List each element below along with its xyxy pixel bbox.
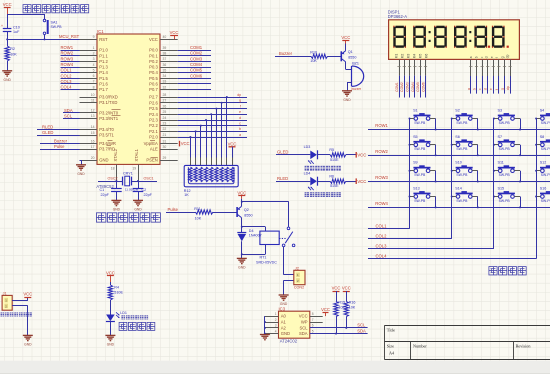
svg-text:SW-PB: SW-PB [414,173,426,177]
svg-text:SCL: SCL [357,323,366,328]
svg-text:COM3: COM3 [406,82,410,92]
svg-text:33: 33 [163,80,167,84]
svg-text:11.0592M: 11.0592M [125,188,139,192]
svg-text:Buzzer: Buzzer [54,139,68,144]
svg-text:7: 7 [93,80,95,84]
svg-text:XTAL1: XTAL1 [134,148,139,161]
svg-text:P3.3/INT1: P3.3/INT1 [99,116,119,121]
svg-text:SW-PB: SW-PB [456,173,468,177]
svg-text:d: d [485,56,489,58]
svg-text:CON2: CON2 [294,286,304,290]
svg-text:COL3: COL3 [61,79,73,84]
svg-text:P2.5: P2.5 [149,106,158,111]
svg-text:S10: S10 [455,161,462,165]
svg-text:GND: GND [281,331,290,336]
svg-text:S15: S15 [498,187,505,191]
svg-text:a: a [469,56,473,58]
svg-text:M6: M6 [425,54,429,59]
svg-text:17: 17 [91,145,95,149]
svg-text:Title: Title [387,328,395,333]
svg-text:GLED: GLED [42,130,53,135]
svg-text:13: 13 [91,114,95,118]
svg-text:GND: GND [343,98,351,102]
svg-text:3: 3 [275,324,277,328]
svg-text:2: 2 [275,318,277,322]
svg-text:SW-PB: SW-PB [414,121,426,125]
svg-text:f: f [495,57,499,58]
svg-text:P0.5: P0.5 [149,76,158,81]
svg-text:S14: S14 [455,187,462,191]
svg-text:GND: GND [238,265,246,269]
svg-text:SA1: SA1 [51,21,58,25]
svg-text:COM6: COM6 [190,73,203,78]
svg-text:M2: M2 [401,54,405,59]
svg-text:SDA: SDA [357,328,366,333]
svg-text:M5: M5 [419,54,423,59]
svg-text:S11: S11 [498,161,504,165]
svg-text:21: 21 [163,133,167,137]
svg-text:RLED: RLED [277,176,288,181]
svg-text:AT24C02: AT24C02 [280,339,298,344]
svg-text:P2.0: P2.0 [149,135,158,140]
svg-text:37: 37 [163,57,167,61]
svg-text:COL4: COL4 [376,254,388,259]
svg-text:25: 25 [163,110,167,114]
svg-text:Pulse: Pulse [54,144,65,149]
svg-text:R12: R12 [184,189,191,193]
svg-text:16: 16 [91,139,95,143]
svg-text:R4: R4 [114,285,119,289]
svg-text:SCL: SCL [299,326,308,331]
svg-text:VCC: VCC [170,30,179,35]
svg-text:S4: S4 [540,109,545,113]
svg-text:COM5: COM5 [416,82,420,92]
svg-text:15: 15 [91,131,95,135]
svg-text:26: 26 [163,104,167,108]
svg-text:MCU_RST: MCU_RST [59,34,80,39]
svg-text:510E: 510E [114,291,123,295]
svg-text:R10: R10 [310,51,317,55]
svg-text:Size: Size [387,344,394,349]
svg-text:S12: S12 [540,161,547,165]
svg-text:R11: R11 [194,207,201,211]
svg-text:P0.1: P0.1 [149,53,158,58]
svg-text:38: 38 [163,52,167,56]
svg-text:6: 6 [93,74,95,78]
svg-text:23: 23 [163,121,167,125]
svg-text:SW-PB: SW-PB [541,199,550,203]
svg-text:28: 28 [163,93,167,97]
svg-text:S6: S6 [455,135,460,139]
svg-text:OSC2: OSC2 [108,176,118,180]
svg-text:SW-PB: SW-PB [541,121,550,125]
svg-text:10: 10 [91,93,95,97]
svg-text:COL1: COL1 [376,223,388,228]
svg-text:SDA: SDA [64,108,73,113]
svg-text:e: e [239,110,241,114]
svg-text:P1.6: P1.6 [99,82,108,87]
svg-text:P0.0: P0.0 [149,48,158,53]
svg-text:COL2: COL2 [61,73,73,78]
svg-text:COM1: COM1 [395,82,399,92]
svg-text:SW-PB: SW-PB [456,199,468,203]
svg-text:VCC: VCC [181,141,190,146]
svg-text:A4: A4 [389,350,395,355]
svg-text:VCC: VCC [332,286,341,291]
svg-text:e: e [490,56,494,58]
svg-text:31: 31 [163,139,167,143]
svg-text:A2: A2 [281,326,287,331]
svg-text:M3: M3 [407,54,411,59]
svg-text:12: 12 [91,109,95,113]
svg-text:10K: 10K [10,53,17,57]
svg-text:P2.1: P2.1 [149,129,158,134]
svg-text:dp: dp [506,54,510,58]
svg-text:P2.3: P2.3 [149,118,158,123]
svg-text:J1: J1 [3,291,7,295]
svg-text:b: b [475,56,479,58]
svg-text:SW-PB: SW-PB [541,147,550,151]
svg-text:VCC: VCC [3,2,12,7]
svg-text:IC3: IC3 [279,306,286,311]
svg-text:S8: S8 [540,135,545,139]
svg-text:S3: S3 [498,109,503,113]
svg-text:27: 27 [163,99,167,103]
svg-text:Buzzer: Buzzer [279,51,293,56]
svg-text:1K: 1K [184,193,189,197]
svg-text:VCC: VCC [341,35,350,40]
svg-text:P1.3: P1.3 [99,65,108,70]
svg-text:COM4: COM4 [411,82,415,92]
svg-text:P3.4/T0: P3.4/T0 [99,127,114,132]
svg-text:ROW4: ROW4 [61,62,74,67]
svg-text:e: e [489,88,493,90]
svg-text:30: 30 [163,145,167,149]
svg-text:ROW2: ROW2 [61,51,74,56]
svg-text:1uF: 1uF [13,30,20,34]
svg-text:Q1: Q1 [348,50,353,54]
svg-text:ALE: ALE [150,147,158,152]
svg-text:19: 19 [132,167,136,171]
svg-text:510E: 510E [330,184,339,188]
svg-text:510E: 510E [330,158,339,162]
svg-text:dp: dp [506,86,510,90]
svg-text:R16: R16 [349,301,356,305]
svg-text:Revision: Revision [516,344,532,349]
svg-text:Vpp/EA: Vpp/EA [144,141,158,146]
svg-text:SW-PB: SW-PB [414,199,426,203]
svg-text:P1.4: P1.4 [99,70,108,75]
svg-text:g: g [500,88,504,90]
svg-text:SCL: SCL [64,113,73,118]
svg-text:GND: GND [134,207,142,211]
svg-text:P1.1: P1.1 [99,53,108,58]
svg-text:b: b [239,127,241,131]
svg-text:PSEN: PSEN [146,158,157,163]
svg-text:29: 29 [163,156,167,160]
svg-text:DP3662-A: DP3662-A [388,14,408,19]
svg-text:P3.2/INT0: P3.2/INT0 [99,110,119,115]
svg-text:S2: S2 [455,109,460,113]
svg-text:5: 5 [312,329,314,333]
svg-text:P3.1/TXD: P3.1/TXD [99,100,117,105]
svg-text:5: 5 [93,68,95,72]
svg-text:GND: GND [107,342,115,346]
svg-text:1: 1 [275,312,277,316]
svg-text:J2: J2 [295,266,299,270]
svg-text:COL4: COL4 [61,85,73,90]
svg-text:g: g [239,99,241,103]
svg-text:COM4: COM4 [190,62,203,67]
svg-text:P0.2: P0.2 [149,59,158,64]
svg-text:COM2: COM2 [400,82,404,92]
svg-text:ROW4: ROW4 [375,201,388,206]
svg-text:Number: Number [413,344,427,349]
svg-text:XTAL2: XTAL2 [113,148,118,161]
svg-text:32: 32 [163,85,167,89]
svg-text:A1: A1 [281,320,287,325]
svg-text:GND: GND [99,158,108,163]
svg-text:GND: GND [24,342,32,346]
svg-text:P3.0/RXD: P3.0/RXD [99,95,118,100]
svg-text:COM2: COM2 [190,51,203,56]
svg-text:GND: GND [113,207,121,211]
svg-text:IC1: IC1 [97,29,104,34]
svg-text:P0.4: P0.4 [149,70,158,75]
svg-text:Pulse: Pulse [168,207,179,212]
svg-text:S9: S9 [413,161,418,165]
svg-text:P0.7: P0.7 [149,87,158,92]
svg-text:34: 34 [163,74,167,78]
svg-text:VCC: VCC [357,179,366,184]
svg-text:7: 7 [312,318,314,322]
svg-text:4: 4 [93,63,95,67]
svg-text:buzzer: buzzer [352,87,363,91]
svg-text:M1: M1 [395,54,399,59]
svg-text:BZ1: BZ1 [352,61,359,65]
svg-text:P1.0: P1.0 [99,48,108,53]
svg-text:10K: 10K [310,59,317,63]
svg-text:18: 18 [111,167,115,171]
svg-text:P0.3: P0.3 [149,65,158,70]
svg-text:LD4: LD4 [304,172,311,176]
svg-text:SW-PB: SW-PB [456,147,468,151]
svg-text:8: 8 [312,312,314,316]
svg-text:P1.2: P1.2 [99,59,108,64]
svg-text:OSC1: OSC1 [144,176,154,180]
svg-text:22pF: 22pF [144,193,153,197]
svg-text:SW-PB: SW-PB [541,173,550,177]
svg-text:1: 1 [93,46,95,50]
svg-text:RLED: RLED [42,124,53,129]
svg-text:R2: R2 [10,47,15,51]
svg-text:14: 14 [91,125,95,129]
svg-text:CRY1: CRY1 [123,172,133,176]
svg-text:SW-PB: SW-PB [499,173,511,177]
svg-text:+: + [1,24,3,28]
svg-text:b: b [472,88,476,90]
svg-text:SDA: SDA [299,331,308,336]
svg-text:P0.6: P0.6 [149,82,158,87]
svg-text:SW-PB: SW-PB [499,121,511,125]
svg-text:COM5: COM5 [190,68,203,73]
svg-text:10K: 10K [195,217,202,221]
svg-text:Q2: Q2 [244,208,249,212]
svg-text:P2.6: P2.6 [149,100,158,105]
svg-text:GND: GND [4,78,12,82]
svg-text:COL3: COL3 [376,244,388,249]
svg-text:8: 8 [93,85,95,89]
svg-text:ROW1: ROW1 [61,45,74,50]
svg-text:R5: R5 [329,148,334,152]
svg-text:LD3: LD3 [304,145,311,149]
svg-text:ROW3: ROW3 [375,175,388,180]
svg-text:8550: 8550 [244,214,252,218]
svg-text:VCC: VCC [23,291,32,296]
svg-text:VCC: VCC [149,37,158,42]
svg-text:VCC: VCC [106,270,115,275]
svg-text:GND: GND [77,172,85,176]
svg-text:a: a [239,133,241,137]
svg-text:SW-PB: SW-PB [51,25,63,29]
svg-text:VCC: VCC [299,314,308,319]
svg-text:ROW1: ROW1 [375,123,388,128]
svg-text:8550: 8550 [348,56,356,60]
svg-text:20: 20 [91,156,95,160]
svg-text:GND: GND [280,302,288,306]
svg-text:ROW3: ROW3 [61,56,74,61]
svg-text:COM1: COM1 [190,45,203,50]
svg-text:P1.7: P1.7 [99,87,108,92]
svg-text:39: 39 [163,46,167,50]
svg-text:c: c [239,121,241,125]
svg-text:A0: A0 [281,314,287,319]
svg-text:C2: C2 [142,188,147,192]
svg-text:2: 2 [93,52,95,56]
svg-text:COL2: COL2 [376,233,388,238]
svg-text:P1.5: P1.5 [99,76,108,81]
svg-text:SW-PB: SW-PB [499,147,511,151]
svg-text:S1: S1 [413,109,418,113]
svg-text:S5: S5 [413,135,418,139]
svg-text:COL1: COL1 [61,68,73,73]
svg-text:S13: S13 [413,187,420,191]
svg-text:COM3: COM3 [190,56,203,61]
svg-text:P3.5/T1: P3.5/T1 [99,133,114,138]
svg-text:36: 36 [163,63,167,67]
svg-text:SW-PB: SW-PB [414,147,426,151]
svg-text:S7: S7 [498,135,503,139]
svg-text:f: f [495,89,499,90]
svg-text:11: 11 [91,98,95,102]
svg-text:35: 35 [163,68,167,72]
svg-text:g: g [500,56,504,58]
svg-text:LD1: LD1 [120,311,127,315]
svg-text:d: d [239,116,241,120]
svg-text:22pF: 22pF [101,193,110,197]
svg-text:f: f [240,104,241,108]
svg-text:C10: C10 [13,26,20,30]
svg-text:D4: D4 [249,229,254,233]
svg-text:a: a [467,88,471,90]
svg-text:P3.7/RD: P3.7/RD [99,147,115,152]
svg-text:M4: M4 [413,54,417,59]
svg-text:COM6: COM6 [421,82,425,92]
svg-text:GLED: GLED [277,150,288,155]
svg-text:RT1: RT1 [260,256,267,260]
svg-text:24: 24 [163,116,167,120]
svg-text:SRD-05VDC: SRD-05VDC [256,261,277,265]
svg-text:VCC: VCC [228,142,237,147]
svg-text:dp: dp [237,93,241,97]
svg-text:S16: S16 [540,187,547,191]
svg-text:22: 22 [163,127,167,131]
svg-text:9: 9 [93,35,95,39]
svg-text:3: 3 [93,57,95,61]
svg-text:P2.4: P2.4 [149,112,158,117]
svg-text:RST: RST [99,37,108,42]
svg-text:d: d [484,88,488,90]
svg-text:WP: WP [301,320,308,325]
svg-text:ROW2: ROW2 [375,149,388,154]
svg-text:C1: C1 [100,188,105,192]
svg-text:40: 40 [163,35,167,39]
svg-text:VCC: VCC [342,286,351,291]
svg-text:4: 4 [275,329,277,333]
svg-text:VCC: VCC [357,152,366,157]
svg-text:SW-PB: SW-PB [499,199,511,203]
svg-text:VCC: VCC [321,307,330,312]
svg-text:P2.2: P2.2 [149,123,158,128]
svg-text:SW-PB: SW-PB [456,121,468,125]
svg-text:P2.7: P2.7 [149,95,158,100]
svg-text:10K: 10K [349,305,356,309]
svg-text:R6: R6 [329,175,334,179]
